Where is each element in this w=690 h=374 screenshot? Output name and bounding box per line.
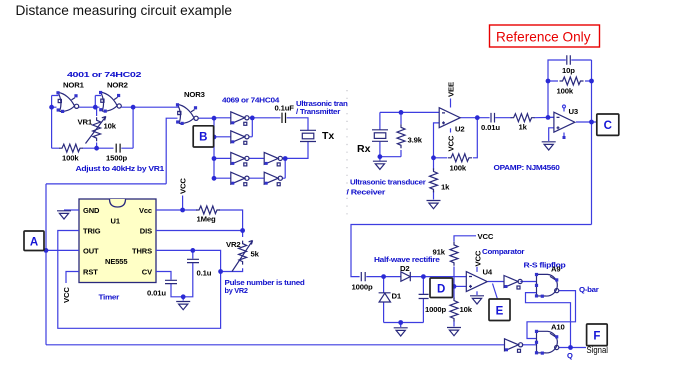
wire D1 branch — [383, 277, 385, 323]
faint page boundary dotted line — [346, 90, 348, 216]
svg-text:VCC: VCC — [478, 232, 494, 241]
node: fb left 100k junction — [546, 79, 551, 84]
transducer Tx — [300, 130, 316, 141]
node: NOR3 output junction — [212, 116, 217, 121]
svg-text:Half-wave rectifire: Half-wave rectifire — [374, 255, 440, 264]
svg-text:0.1u: 0.1u — [197, 269, 212, 278]
node: D2-cap2 junction — [421, 274, 426, 279]
connector box A — [24, 231, 44, 251]
svg-text:91k: 91k — [433, 248, 446, 257]
resistor 100k (U2 fb) — [448, 154, 472, 162]
wire cap2 branch — [422, 277, 424, 323]
inverter row1 — [231, 112, 249, 126]
inverter row4a — [231, 172, 249, 186]
svg-text:5k: 5k — [251, 250, 260, 259]
node: U3 output junction — [589, 120, 594, 125]
svg-text:1k: 1k — [441, 183, 450, 192]
node: NOR1-NOR2 junction — [93, 105, 98, 110]
wire inverter1 out to A9 — [520, 281, 536, 283]
svg-text:D1: D1 — [392, 292, 402, 301]
svg-text:NOR3: NOR3 — [184, 90, 205, 99]
svg-text:NOR1: NOR1 — [63, 81, 85, 90]
node: Vcc-VCC junction — [180, 208, 185, 213]
svg-text:Q: Q — [567, 351, 573, 360]
node: row4 input — [212, 176, 217, 181]
wire U4 VCC stub — [476, 267, 478, 272]
IC U1 NE555 body — [79, 199, 156, 283]
wire 91k 10k divider — [454, 236, 476, 327]
wire GND pin — [64, 209, 79, 211]
svg-text:4001 or 74HC02: 4001 or 74HC02 — [67, 70, 141, 79]
svg-text:1500p: 1500p — [106, 154, 128, 163]
capacitor 0.01u plates — [165, 280, 177, 283]
wire NOR3 out to inverter column — [198, 117, 214, 119]
node: rows1-2 output join — [250, 116, 255, 121]
comparator U4 — [466, 272, 487, 292]
connector box F — [587, 324, 608, 346]
svg-text:E: E — [496, 306, 504, 318]
capacitor 1000p input plates — [361, 272, 365, 281]
resistor 3.9k — [397, 124, 405, 148]
op-amp U3 — [554, 112, 575, 132]
capacitor 0.1uF — [282, 113, 286, 123]
svg-text:Timer: Timer — [99, 293, 120, 302]
wire rows 1-2 output join — [249, 118, 281, 137]
svg-text:THRS: THRS — [132, 247, 152, 256]
ground below 1k — [427, 201, 441, 209]
wire inverter input column — [214, 118, 231, 178]
node: Q junction — [568, 345, 573, 350]
inverter row3a — [231, 152, 249, 166]
node: Rx top junction — [399, 110, 404, 115]
wire U2 feedback 100k — [434, 118, 478, 158]
node: DIS-1Meg junction — [240, 228, 245, 233]
node: VR2 bottom junction — [218, 269, 223, 274]
svg-text:RST: RST — [83, 268, 98, 277]
svg-text:3.9k: 3.9k — [408, 136, 423, 145]
wire U3 output and long vertical — [576, 60, 597, 225]
node: U2 fb left junction — [431, 155, 436, 160]
wire Rx bottom node — [380, 142, 401, 161]
svg-text:U3: U3 — [569, 107, 579, 116]
svg-text:TRIG: TRIG — [83, 227, 101, 236]
svg-text:4069 or 74HC04: 4069 or 74HC04 — [222, 96, 280, 105]
svg-text:0.01u: 0.01u — [481, 123, 500, 132]
wire 1k to ground — [433, 158, 435, 200]
inverter row4b — [264, 172, 282, 186]
ground below U4 — [470, 296, 484, 304]
wire U2 output — [460, 117, 489, 119]
connector box D — [430, 278, 453, 298]
svg-text:1Meg: 1Meg — [197, 215, 217, 224]
svg-text:0.01u: 0.01u — [147, 289, 166, 298]
svg-text:GND: GND — [83, 206, 100, 215]
svg-text:Adjust to 40kHz by VR1: Adjust to 40kHz by VR1 — [76, 164, 165, 173]
wire U2 inverting input — [434, 123, 440, 158]
node: rows3-4 output join — [283, 156, 288, 161]
wire RST to VCC — [66, 272, 79, 284]
node: NOR1 input junction — [49, 105, 54, 110]
svg-text:Ultrasonic transducer: Ultrasonic transducer — [350, 178, 426, 187]
svg-text:100k: 100k — [62, 154, 79, 163]
resistor 1Meg — [196, 206, 220, 214]
svg-text:Vcc: Vcc — [139, 206, 152, 215]
node: row3 input — [212, 156, 217, 161]
inverter row2 — [231, 131, 249, 145]
inverter row3b — [264, 152, 282, 166]
wire VCC stub at Vcc — [182, 196, 184, 211]
wire DIS pin — [156, 230, 243, 232]
wire NOR2 output down to cap — [132, 107, 134, 148]
wire Vcc pin to 1Meg — [156, 210, 243, 231]
ground at GND pin — [57, 211, 71, 219]
svg-text:1k: 1k — [519, 123, 528, 132]
ground below 10k — [447, 328, 461, 336]
wire U4 ground stub — [476, 291, 478, 295]
wire 0.1u branch — [183, 250, 193, 296]
capacitor 0.01u coupling — [491, 113, 495, 123]
svg-text:0.1uF: 0.1uF — [275, 104, 295, 113]
variable resistor VR2 — [232, 241, 253, 272]
svg-text:1000p: 1000p — [425, 305, 447, 314]
wire A10 output Q — [559, 347, 586, 349]
svg-text:D: D — [437, 284, 445, 296]
svg-text:U2: U2 — [455, 125, 465, 134]
wire signal run to rectifier — [351, 225, 592, 277]
svg-text:D2: D2 — [400, 264, 410, 273]
diode D2 — [401, 272, 410, 281]
wire NOR3 lower input feedback — [166, 118, 177, 184]
svg-text:OPAMP: NJM4560: OPAMP: NJM4560 — [494, 163, 560, 172]
node: 1000p-D1-D2 junction — [381, 274, 386, 279]
svg-text:VCC: VCC — [447, 135, 456, 151]
svg-text:Rx: Rx — [357, 143, 371, 155]
svg-text:10k: 10k — [460, 305, 473, 314]
node: divider junction — [452, 284, 457, 289]
connector box B — [193, 126, 213, 147]
wire Rx top node — [380, 112, 439, 129]
connector box C — [597, 114, 619, 135]
wire divider to U4 — [454, 285, 466, 287]
svg-text:Reference Only: Reference Only — [496, 29, 591, 45]
ground rectifier — [394, 328, 408, 336]
svg-text:VR1: VR1 — [78, 118, 93, 127]
svg-text:10k: 10k — [104, 122, 117, 131]
resistor 1k coupling — [511, 114, 535, 122]
node: Rx bottom junction — [378, 154, 383, 159]
svg-text:OUT: OUT — [83, 247, 99, 256]
wire U2 VCC stub — [450, 128, 452, 132]
wire A9 output Q-bar — [527, 291, 576, 339]
svg-text:B: B — [199, 132, 207, 144]
wire THRS pin and loop to TRIG — [58, 231, 221, 329]
wire U3 inverting input — [548, 116, 554, 118]
NAND A9 — [535, 273, 559, 298]
transducer Rx — [372, 130, 388, 142]
ground at U3 + input — [542, 142, 556, 150]
svg-text:/ Transmitter: / Transmitter — [296, 107, 340, 116]
node: CV ground junction — [181, 294, 186, 299]
svg-text:F: F — [593, 331, 600, 343]
svg-text:A10: A10 — [551, 323, 565, 332]
svg-text:VCC: VCC — [62, 287, 71, 303]
node: U3 input junction — [546, 115, 551, 120]
svg-text:VR2: VR2 — [226, 240, 241, 249]
svg-text:100k: 100k — [450, 164, 467, 173]
svg-text:Tx: Tx — [322, 130, 334, 142]
wire bottom RC rail — [52, 147, 134, 149]
resistor 100k (osc) — [59, 144, 83, 152]
node: U2 output junction — [475, 115, 480, 120]
diode D1 — [379, 293, 391, 302]
inverter before A9 — [504, 276, 522, 290]
svg-text:Comparator: Comparator — [482, 247, 525, 256]
node: OUT A junction — [44, 248, 49, 253]
svg-text:A9: A9 — [551, 265, 561, 274]
svg-text:10p: 10p — [562, 66, 575, 75]
wire VR1 stubs — [96, 107, 98, 148]
wire NOR1 left vertical feedback — [52, 96, 59, 149]
capacitor 10p — [567, 55, 571, 65]
resistor 100k (U3 fb) — [560, 77, 584, 85]
svg-text:A: A — [30, 237, 38, 249]
wire U3 feedback left vertical — [548, 60, 566, 117]
NAND A10 — [535, 330, 559, 355]
connector box E — [489, 299, 510, 321]
NOR gate NOR3 — [176, 103, 198, 125]
wire cap to Tx top — [285, 118, 308, 159]
svg-text:NE555: NE555 — [105, 257, 127, 266]
wire U4 output — [488, 281, 504, 283]
wire bottom rail — [46, 344, 505, 346]
svg-text:Q-bar: Q-bar — [579, 285, 599, 294]
node: NOR2 output junction — [131, 105, 136, 110]
wire 0.01u to 1k to U3 — [495, 116, 553, 118]
node: THRS junction — [190, 248, 195, 253]
svg-text:by VR2: by VR2 — [225, 286, 248, 295]
svg-text:100k: 100k — [557, 87, 574, 96]
resistor 10k — [450, 298, 458, 322]
svg-text:VCC: VCC — [179, 178, 188, 194]
wire U2 VEE stub — [450, 99, 452, 108]
wire 10p right to vertical — [571, 60, 591, 81]
wire OUT pin to A node — [46, 249, 79, 251]
wire NOR1 out to NOR2 in — [79, 96, 101, 108]
NOR gate NOR2 — [99, 91, 121, 113]
wire rows 3-4 cascade — [249, 158, 285, 178]
wire inverter2 out to A10 — [522, 344, 537, 346]
svg-text:CV: CV — [142, 268, 152, 277]
wire rectifier ground rail — [384, 323, 424, 328]
wire NOR2 out to NOR3 — [122, 106, 180, 108]
svg-text:VEE: VEE — [447, 82, 456, 97]
NOR gate NOR1 — [56, 91, 78, 113]
op-amp U2 — [439, 108, 460, 128]
svg-text:/ Receiver: / Receiver — [347, 188, 386, 197]
capacitor 1000p second plates — [419, 294, 429, 298]
wire U3 + input to ground — [549, 128, 554, 141]
wire 1000p to D2 node — [366, 276, 401, 278]
wire 555 OUT feedback long run — [46, 184, 166, 345]
svg-text:DIS: DIS — [140, 227, 152, 236]
ground below Rx — [373, 161, 387, 169]
svg-text:Distance measuring circuit exa: Distance measuring circuit example — [16, 3, 233, 18]
Reference Only box — [490, 25, 600, 47]
wire U3 power stubs — [563, 105, 566, 139]
wire Q feedback — [526, 293, 571, 348]
svg-text:U1: U1 — [111, 217, 120, 226]
resistor 1k (U2) — [430, 168, 438, 192]
svg-text:C: C — [604, 120, 612, 132]
svg-text:NOR2: NOR2 — [107, 81, 128, 90]
callout line to E — [493, 284, 498, 299]
inverter before A10 — [505, 339, 523, 353]
variable resistor VR1 — [86, 117, 106, 144]
svg-text:U4: U4 — [483, 268, 493, 277]
svg-text:1000p: 1000p — [352, 283, 374, 292]
wire CV pin to 0.01u — [156, 272, 183, 301]
node: VR1 bottom junction — [94, 146, 99, 151]
capacitor 0.1u plates — [187, 259, 199, 262]
svg-text:Signal: Signal — [587, 345, 609, 355]
node: fb right 100k junction — [589, 79, 594, 84]
node: rectifier gnd junction — [398, 320, 403, 325]
ground at CV node — [176, 302, 190, 310]
wire D2 out to U4 — [411, 276, 466, 278]
wire VR2 top/bottom — [221, 231, 243, 272]
capacitor 1500p — [116, 144, 120, 153]
node: row2 input / B box — [212, 135, 217, 140]
resistor 91k — [450, 242, 458, 266]
